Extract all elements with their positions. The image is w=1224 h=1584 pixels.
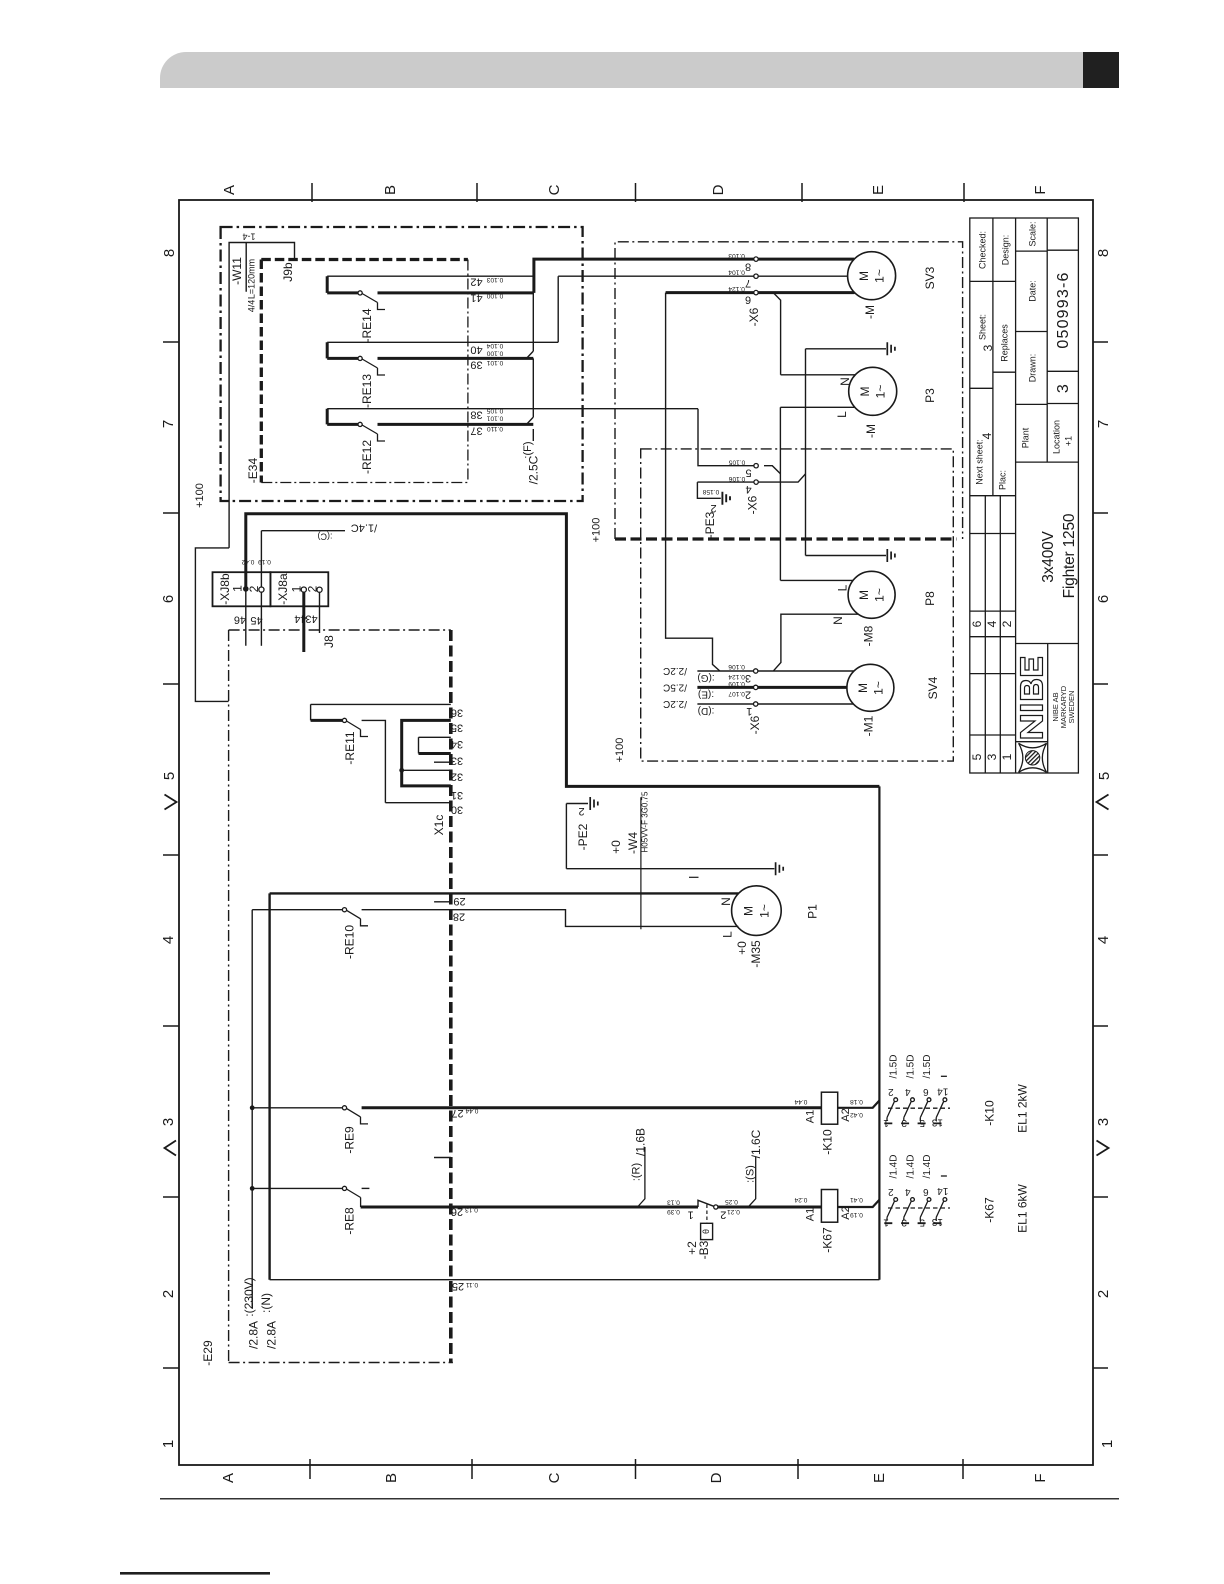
wire 38 riser to X6:5: [698, 409, 754, 466]
cable W11 loop to J8: [195, 548, 229, 702]
wire 25: [270, 1279, 880, 1281]
svg-text:M: M: [742, 906, 756, 916]
svg-text:4: 4: [160, 936, 177, 944]
svg-text:0.24: 0.24: [794, 1196, 807, 1203]
svg-text:M: M: [856, 683, 870, 693]
svg-text:-M35: -M35: [749, 940, 763, 968]
wire numbers 43-46: [234, 613, 318, 627]
enclosure +100 upper (SV3/P3 dash-dot box): [615, 242, 963, 539]
svg-text:43: 43: [305, 613, 317, 625]
wire 33: [419, 752, 451, 755]
wire 39: [327, 342, 533, 358]
relay RE14 contact: [358, 291, 362, 295]
svg-text:0.105: 0.105: [728, 458, 745, 465]
svg-text:-RE9: -RE9: [343, 1126, 357, 1154]
svg-text:2: 2: [720, 1209, 726, 1221]
ground symbol PE2 top: [590, 797, 598, 810]
svg-text:33: 33: [451, 755, 463, 767]
svg-text:0.124: 0.124: [728, 285, 745, 292]
protective earth PE2: [566, 804, 774, 869]
svg-text:0.158: 0.158: [702, 488, 719, 495]
NIBE AB MARKARYD SWEDEN: [1051, 685, 1076, 728]
coil K67: [821, 1190, 837, 1223]
svg-text:-X6: -X6: [748, 715, 762, 734]
pin XJ8b:2: [259, 587, 264, 592]
svg-text:45: 45: [250, 614, 262, 626]
wire 26 to K67: [718, 1206, 822, 1209]
wire 27 feed: [252, 1107, 342, 1109]
svg-text:A: A: [220, 1473, 237, 1483]
relay RE9 contact: [342, 1106, 346, 1110]
svg-text:6: 6: [970, 620, 984, 627]
terminal strip X1 right edge (thick dashed): [449, 630, 453, 1363]
svg-text:-RE13: -RE13: [360, 374, 374, 408]
svg-text:3: 3: [985, 753, 999, 760]
svg-text:/2.2C: /2.2C: [663, 698, 687, 709]
svg-text:36: 36: [451, 707, 463, 719]
svg-text:42: 42: [470, 276, 482, 288]
RE8 fixed stub: [362, 1187, 370, 1189]
frame ticks right: [1093, 342, 1108, 1368]
connector labels: [218, 573, 320, 605]
svg-text:0.103: 0.103: [728, 252, 745, 259]
pin X6:6: [754, 290, 758, 294]
svg-text:44: 44: [294, 613, 306, 625]
svg-text:H05VV-F 3G0.75: H05VV-F 3G0.75: [641, 791, 650, 852]
svg-text:0.25: 0.25: [725, 1198, 738, 1205]
svg-text:1: 1: [160, 1440, 177, 1448]
svg-text:Next sheet:: Next sheet:: [974, 439, 984, 485]
svg-text:4: 4: [905, 1186, 911, 1197]
wire P8 N to SV4 pin3: [774, 614, 859, 671]
svg-text:5: 5: [1096, 772, 1113, 780]
svg-text:1: 1: [688, 1209, 694, 1221]
frame column letters bottom: [220, 1472, 1049, 1483]
svg-text:+100: +100: [614, 738, 626, 763]
header gray bar: [160, 52, 1083, 88]
node F reference stub: [532, 429, 534, 441]
svg-text:1: 1: [231, 585, 245, 592]
svg-text:4: 4: [980, 432, 994, 439]
svg-text:-PE3: -PE3: [703, 511, 717, 538]
coil K10: [821, 1092, 837, 1124]
pin X6:7: [754, 274, 758, 278]
svg-text:3: 3: [1055, 383, 1072, 393]
svg-text:3: 3: [981, 344, 995, 351]
svg-text::(G): :(G): [697, 672, 714, 683]
svg-text:37: 37: [470, 425, 482, 437]
branch X6:6 to P3 N: [773, 293, 855, 375]
wire SV4 pin1: [697, 703, 853, 705]
svg-text:5: 5: [745, 467, 751, 479]
svg-text:/2.8A: /2.8A: [247, 1321, 261, 1349]
svg-text:13: 13: [931, 1116, 943, 1127]
wire 29: [270, 892, 739, 894]
ground symbol P3: [887, 342, 895, 355]
wire 32: [402, 769, 451, 771]
svg-text:3: 3: [1095, 1118, 1112, 1126]
svg-text:1: 1: [746, 705, 752, 717]
relay RE8 contact: [342, 1186, 346, 1190]
PE bus vertical: [805, 349, 807, 556]
svg-text:E: E: [870, 185, 887, 195]
svg-text:28: 28: [453, 911, 465, 923]
pin X6:8: [754, 257, 758, 261]
frame ticks top: [312, 183, 964, 202]
svg-text:14: 14: [937, 1185, 949, 1196]
svg-text:25: 25: [452, 1280, 464, 1292]
svg-text:1-4: 1-4: [242, 232, 255, 242]
svg-text:0.44: 0.44: [465, 1107, 478, 1114]
wire 38: [327, 408, 698, 410]
svg-text:1~: 1~: [873, 269, 887, 283]
frame column letters top: [221, 184, 1049, 195]
svg-text:L: L: [835, 411, 849, 418]
connector XJ8a box: [270, 572, 328, 606]
svg-text:-K67: -K67: [821, 1227, 835, 1253]
svg-text:0.41: 0.41: [850, 1196, 863, 1203]
wire 37: [327, 409, 533, 425]
svg-text:0.124: 0.124: [728, 673, 745, 680]
logo area: [1016, 644, 1079, 774]
revision table columns: [985, 496, 1000, 773]
c3/c4 rows: [1016, 250, 1079, 462]
svg-text:46: 46: [234, 614, 246, 626]
svg-text:31: 31: [451, 789, 463, 801]
ground wire P3: [806, 348, 887, 350]
wire numbers 25-29: [451, 895, 466, 1292]
actuator dashed link: [706, 1205, 708, 1224]
wire 42: [327, 275, 534, 277]
wire 28: [362, 910, 739, 927]
K67 auxiliary contact map: [884, 1176, 950, 1223]
svg-text:14: 14: [937, 1085, 949, 1096]
svg-text:/1.5D: /1.5D: [922, 1055, 933, 1079]
pin X6:3: [754, 669, 758, 673]
svg-text:1~: 1~: [758, 904, 772, 918]
svg-text:+100: +100: [591, 518, 603, 543]
relay RE11 contact: [342, 718, 346, 722]
enclosure E34 (dash-dot box): [221, 227, 583, 501]
svg-text:-E34: -E34: [246, 458, 260, 484]
pin XJ8a:2: [317, 587, 322, 592]
junction dot 32: [399, 768, 404, 773]
wire SV4 pin2: [697, 686, 847, 689]
svg-text:-K67: -K67: [983, 1197, 997, 1223]
column dividers: [993, 218, 1047, 773]
svg-text:2: 2: [306, 585, 320, 592]
svg-text:0.19: 0.19: [850, 1211, 863, 1218]
svg-text:0.19: 0.19: [258, 558, 271, 565]
svg-text::(S): :(S): [745, 1165, 757, 1183]
pin X6:5: [754, 464, 758, 468]
svg-text:Drawn:: Drawn:: [1027, 354, 1037, 383]
svg-text:Plant: Plant: [1020, 427, 1030, 448]
svg-text:2: 2: [745, 689, 751, 701]
svg-text:5: 5: [970, 753, 984, 760]
svg-text:-W4: -W4: [626, 832, 640, 854]
c1 rows: [970, 281, 1016, 388]
svg-text:/2.8A: /2.8A: [265, 1321, 279, 1349]
svg-text:C: C: [546, 184, 563, 195]
svg-text:P8: P8: [923, 591, 937, 606]
svg-text:Location: Location: [1051, 420, 1061, 454]
svg-text:6: 6: [1095, 595, 1112, 603]
enclosure +100 lower (P8/SV4 dash-dot box): [641, 449, 954, 761]
svg-text:+100: +100: [194, 483, 206, 508]
svg-text:/2.5C: /2.5C: [527, 455, 541, 484]
svg-text::(C): :(C): [318, 532, 333, 542]
wire P3 L bus: [780, 407, 855, 580]
svg-text:2: 2: [888, 1086, 894, 1097]
svg-text:0.110: 0.110: [487, 425, 503, 432]
svg-text:1: 1: [1000, 753, 1014, 760]
wire 26 feed: [252, 1187, 342, 1189]
svg-text:0.100: 0.100: [486, 292, 503, 299]
svg-text:1~: 1~: [874, 385, 888, 399]
svg-text:-K10: -K10: [821, 1129, 835, 1155]
svg-text:A: A: [221, 185, 238, 195]
svg-text:39: 39: [470, 359, 482, 371]
fold chevron left upper: [165, 795, 177, 810]
wire X6:7 to SV3: [756, 275, 848, 277]
svg-text:N: N: [831, 616, 845, 625]
svg-text:B: B: [382, 185, 399, 195]
svg-text:-RE8: -RE8: [343, 1207, 357, 1235]
svg-text:-RE11: -RE11: [343, 731, 357, 764]
svg-text:0.42: 0.42: [241, 558, 254, 565]
svg-text:Sheet:: Sheet:: [977, 314, 987, 340]
revision rows: [970, 496, 1016, 735]
ground wire P8: [806, 555, 887, 557]
enclosure J8/E29 left edge: [228, 630, 230, 1363]
svg-text:+0: +0: [609, 840, 623, 854]
svg-text:3: 3: [745, 672, 751, 684]
wire X6:5 branch diagonal: [764, 466, 780, 474]
svg-text:29: 29: [453, 895, 465, 907]
svg-text:0.105: 0.105: [486, 407, 503, 414]
wire 40: [327, 341, 558, 343]
svg-text:27: 27: [451, 1107, 463, 1119]
svg-text:N: N: [838, 377, 852, 386]
svg-text:-M: -M: [864, 424, 878, 438]
svg-text:F: F: [1032, 1473, 1049, 1482]
svg-text:4: 4: [1095, 936, 1112, 944]
motor P3: [849, 367, 897, 415]
wire 34: [419, 737, 451, 753]
pin X6:2: [754, 685, 758, 689]
svg-text:-RE12: -RE12: [360, 440, 374, 474]
relay RE10 contact: [342, 908, 346, 912]
K10 auxiliary contact map: [884, 1076, 950, 1123]
svg-text:0.42: 0.42: [850, 1111, 863, 1118]
wire 29 stub tick: [434, 901, 451, 903]
frame border: [179, 200, 1093, 1465]
svg-text:-M8: -M8: [862, 625, 876, 646]
svg-text:1~: 1~: [873, 588, 887, 602]
pump P1: [732, 886, 782, 936]
svg-text:A1: A1: [804, 1208, 816, 1221]
svg-text:13: 13: [931, 1216, 943, 1227]
svg-text:32: 32: [451, 771, 463, 783]
thermostat bulb box: [701, 1223, 713, 1239]
svg-text:2: 2: [888, 1186, 894, 1197]
svg-text:N: N: [719, 897, 733, 906]
svg-text:θ: θ: [701, 1229, 711, 1234]
svg-text:4: 4: [905, 1086, 911, 1097]
wire K67 A2 to bus: [838, 1200, 880, 1207]
wire 26: [361, 1206, 698, 1209]
svg-text:1: 1: [1099, 1440, 1116, 1448]
ground symbol P8: [887, 549, 895, 562]
svg-text:1: 1: [883, 1117, 889, 1128]
svg-text:4/4: 4/4: [246, 300, 256, 313]
svg-text:0.21: 0.21: [727, 1208, 740, 1215]
wire 45 riser: [260, 531, 262, 646]
svg-text:Fighter 1250: Fighter 1250: [1061, 513, 1078, 598]
svg-text:L: L: [721, 931, 735, 938]
svg-text:/1.4D: /1.4D: [922, 1155, 933, 1179]
svg-text:1~: 1~: [872, 681, 886, 695]
PCB J9b left edge (thick dashed): [260, 260, 263, 483]
svg-text:26: 26: [451, 1206, 463, 1218]
title block texts: [974, 221, 1073, 490]
PCB boundary thick dashed bottom of upper box: [615, 537, 956, 540]
cable tick: [689, 876, 699, 878]
svg-text:-RE14: -RE14: [360, 308, 374, 342]
svg-text:8: 8: [161, 249, 178, 257]
PCB J9b top edge (thick dashed): [261, 258, 468, 261]
svg-text:0.103: 0.103: [486, 276, 503, 283]
svg-text:0.39: 0.39: [667, 1208, 680, 1215]
wire X6:7 to wire 40 riser: [558, 276, 756, 342]
wire 44 riser: [302, 590, 305, 652]
svg-text:Replaces: Replaces: [999, 324, 1009, 362]
bus to contactors: [878, 786, 880, 1279]
svg-text:0.44: 0.44: [794, 1098, 807, 1105]
cable W11 line: [229, 243, 294, 548]
svg-text:L: L: [836, 584, 850, 591]
svg-text:4: 4: [985, 620, 999, 627]
svg-text:-XJ8a: -XJ8a: [276, 573, 290, 605]
svg-text:3x400V: 3x400V: [1040, 530, 1057, 582]
frame ticks left: [163, 342, 179, 1368]
svg-text:3: 3: [901, 1217, 907, 1228]
svg-text:-W11: -W11: [230, 257, 244, 285]
svg-text:P3: P3: [923, 388, 937, 403]
NIBE logo outline letters: [1021, 658, 1043, 739]
relay RE13 contact: [358, 356, 362, 360]
fold chevron right upper: [1097, 795, 1109, 810]
footer rule: [160, 1498, 1119, 1500]
connector XJ8b box: [213, 572, 271, 606]
ground symbol PE2 end: [776, 862, 784, 875]
svg-text:7: 7: [745, 277, 751, 289]
svg-text:Date:: Date:: [1027, 280, 1037, 302]
header dark square: [1083, 52, 1119, 88]
pump P8: [848, 571, 895, 618]
svg-text:050993-6: 050993-6: [1055, 271, 1072, 348]
svg-text:Plac:: Plac:: [997, 470, 1007, 490]
svg-text:2: 2: [578, 805, 584, 817]
svg-text::(230V): :(230V): [242, 1277, 256, 1316]
svg-text:2: 2: [160, 1290, 177, 1298]
svg-text::(E): :(E): [698, 689, 714, 700]
svg-text:3: 3: [160, 1118, 177, 1126]
svg-text:D: D: [710, 184, 727, 195]
reference stub (R) /1.6B: [638, 1147, 645, 1207]
svg-text:34: 34: [451, 738, 463, 750]
svg-text:+0: +0: [735, 941, 749, 955]
pin X6:1: [754, 702, 758, 706]
wire 28 feed: [252, 909, 342, 911]
title block grid: [970, 218, 1079, 773]
relay RE11 feed: [311, 719, 343, 722]
svg-text:0.100: 0.100: [486, 349, 503, 356]
fold chevron right lower: [1097, 1141, 1109, 1156]
svg-text:0.104: 0.104: [486, 342, 503, 349]
svg-text:0.107: 0.107: [728, 690, 745, 697]
junction dot RE9 feed: [250, 1105, 255, 1110]
svg-text:41: 41: [470, 292, 482, 304]
frame row numbers left: [160, 249, 178, 1448]
svg-text:8: 8: [1095, 249, 1112, 257]
svg-text:M: M: [857, 590, 871, 600]
svg-text:6: 6: [160, 595, 177, 603]
svg-text:1: 1: [290, 585, 304, 592]
svg-text:6: 6: [923, 1086, 929, 1097]
wire 36: [311, 704, 451, 720]
svg-text:-PE2: -PE2: [576, 823, 590, 850]
ground symbol PE3: [722, 492, 730, 505]
svg-text:/1.5D: /1.5D: [889, 1055, 900, 1079]
svg-text:-K10: -K10: [983, 1100, 997, 1126]
svg-text:5: 5: [919, 1217, 925, 1228]
svg-text:/1.4C: /1.4C: [351, 522, 377, 534]
motor SV3: [848, 252, 896, 300]
svg-text:D: D: [708, 1472, 725, 1483]
svg-text:/1.6B: /1.6B: [634, 1128, 648, 1156]
svg-text:0.104: 0.104: [728, 269, 745, 276]
svg-text:/1.4D: /1.4D: [889, 1155, 900, 1179]
wire 43 riser: [319, 590, 321, 633]
svg-text:0.13: 0.13: [667, 1198, 680, 1205]
svg-text:/2.2C: /2.2C: [663, 665, 687, 676]
svg-text:0.101: 0.101: [486, 414, 503, 421]
svg-text:C: C: [546, 1472, 563, 1483]
svg-text:-E29: -E29: [201, 1340, 215, 1366]
svg-text:-X6: -X6: [747, 307, 761, 326]
svg-text:EL1 6kW: EL1 6kW: [1016, 1183, 1030, 1232]
X6 wire numbers: [702, 252, 745, 697]
svg-text:Scale:: Scale:: [1027, 221, 1037, 246]
svg-text::(R): :(R): [630, 1163, 642, 1181]
svg-text::(N): :(N): [259, 1293, 273, 1313]
svg-text:6: 6: [745, 294, 751, 306]
svg-text:0.106: 0.106: [728, 475, 745, 482]
pin XJ8b:1: [243, 586, 249, 592]
svg-text:7: 7: [160, 420, 177, 428]
wire to 30: [362, 720, 451, 802]
wire riser 39-37 bus with jogs: [527, 293, 534, 425]
svg-text:+1: +1: [1063, 436, 1073, 446]
svg-text:3: 3: [901, 1117, 907, 1128]
svg-text:1: 1: [883, 1217, 889, 1228]
svg-text:/1.4D: /1.4D: [905, 1155, 916, 1179]
svg-text:-X6: -X6: [746, 495, 760, 514]
svg-text::(D): :(D): [698, 705, 715, 716]
svg-text:/1.6C: /1.6C: [749, 1129, 763, 1158]
